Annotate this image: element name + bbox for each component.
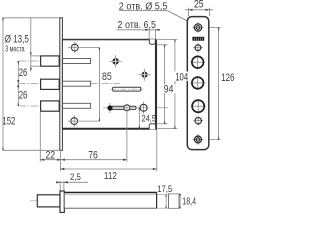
keyhole pivot (filled) bbox=[107, 103, 112, 113]
bolt 3 bbox=[41, 101, 60, 111]
slot bbox=[110, 87, 144, 91]
svg-text:22: 22 bbox=[46, 150, 56, 162]
A row line bbox=[68, 47, 99, 49]
dim 26 line bbox=[17, 61, 19, 106]
lock body outline bbox=[62, 40, 156, 130]
dim 152 extension top bbox=[3, 17, 60, 19]
text 94 bbox=[163, 84, 176, 96]
faceplate edge-on strip (main view) bbox=[60, 18, 63, 151]
svg-text:126: 126 bbox=[221, 72, 234, 84]
dim 104 bbox=[158, 40, 178, 129]
svg-text:76: 76 bbox=[88, 149, 98, 161]
dim 18,4 bbox=[179, 194, 181, 208]
svg-text:2,5: 2,5 bbox=[70, 172, 81, 183]
leader 2otv d5,5 bbox=[119, 11, 195, 26]
dim 25 bbox=[185, 8, 213, 16]
dim 112 line bbox=[60, 130, 157, 172]
svg-text:24,5: 24,5 bbox=[142, 113, 157, 124]
bolt 1 bbox=[41, 56, 60, 66]
small hole under logo bbox=[193, 43, 203, 53]
screw hole E bbox=[140, 102, 147, 114]
svg-text:2 отв. Ø 5,5: 2 отв. Ø 5,5 bbox=[119, 1, 168, 12]
svg-text:17,5: 17,5 bbox=[157, 184, 172, 195]
bolt 3 centerline bbox=[19, 105, 90, 107]
svg-text:85: 85 bbox=[102, 71, 112, 83]
svg-text:3 места: 3 места bbox=[5, 44, 25, 53]
dim 2otv 6,5 bbox=[117, 29, 160, 39]
svg-text:2 отв. 6,5: 2 отв. 6,5 bbox=[118, 20, 157, 31]
dim 17,5 bbox=[158, 195, 182, 209]
big hole 2 bbox=[191, 76, 205, 90]
svg-text:104: 104 bbox=[175, 72, 188, 84]
bottom bolt bbox=[37, 195, 60, 207]
bottom notch 6,5 bbox=[149, 124, 155, 130]
main view group bbox=[19, 18, 168, 151]
screw hole D bbox=[71, 115, 78, 127]
dim 2,5 bbox=[56, 181, 88, 191]
bolt shaft 1 bbox=[63, 59, 91, 64]
fixing hole C (filled quadrants) bbox=[139, 69, 151, 81]
big hole 3 bbox=[191, 99, 206, 114]
dim 126 bbox=[203, 28, 221, 140]
ext bolt tip down bbox=[39, 112, 41, 162]
keyhole row line bbox=[103, 107, 149, 109]
keyhole row right extension bbox=[158, 107, 169, 109]
top notch 6,5 bbox=[149, 39, 155, 44]
D row line bbox=[68, 120, 99, 122]
svg-text:94: 94 bbox=[164, 84, 174, 96]
bolt shaft 2 bbox=[63, 81, 91, 86]
big hole 1 bbox=[191, 55, 205, 69]
bottom bolt centerline bbox=[30, 200, 70, 202]
bolt 2 centerline bbox=[19, 83, 120, 85]
ext keyhole down bbox=[126, 112, 128, 162]
svg-text:18,4: 18,4 bbox=[182, 196, 196, 207]
dim 94 bbox=[157, 45, 168, 124]
dim 13.5 leader bbox=[30, 18, 41, 72]
small hole low bbox=[193, 116, 203, 126]
dim 24,5 bbox=[138, 108, 140, 129]
bolt 1 centerline bbox=[19, 60, 90, 62]
text 104 bbox=[174, 72, 191, 84]
screw hole top (countersunk) bbox=[193, 22, 204, 33]
bottom faceplate strip bbox=[60, 191, 64, 213]
ext plate left down bbox=[60, 150, 62, 171]
bolt 2 bbox=[41, 79, 60, 89]
svg-text:26: 26 bbox=[19, 67, 28, 79]
svg-text:152: 152 bbox=[2, 116, 15, 128]
svg-text:26: 26 bbox=[19, 89, 28, 101]
svg-text:112: 112 bbox=[104, 170, 117, 182]
bottom body bar bbox=[64, 192, 156, 208]
faceplate plate bbox=[187, 17, 209, 150]
dim 152 extension bottom bbox=[3, 149, 61, 151]
dim 22-76 line bbox=[40, 112, 127, 172]
fixing hole B (filled quadrants) bbox=[110, 55, 122, 67]
screw hole A bbox=[71, 42, 78, 54]
key slot bbox=[112, 104, 137, 112]
bolt shaft 3 bbox=[63, 103, 91, 108]
logo bbox=[192, 37, 204, 41]
dim 152 line bbox=[2, 18, 4, 151]
screw hole bottom bbox=[193, 134, 204, 145]
svg-text:25: 25 bbox=[194, 0, 204, 11]
dim 85 bbox=[98, 48, 100, 122]
ext body right down bbox=[156, 130, 158, 172]
striker square bbox=[168, 194, 179, 208]
